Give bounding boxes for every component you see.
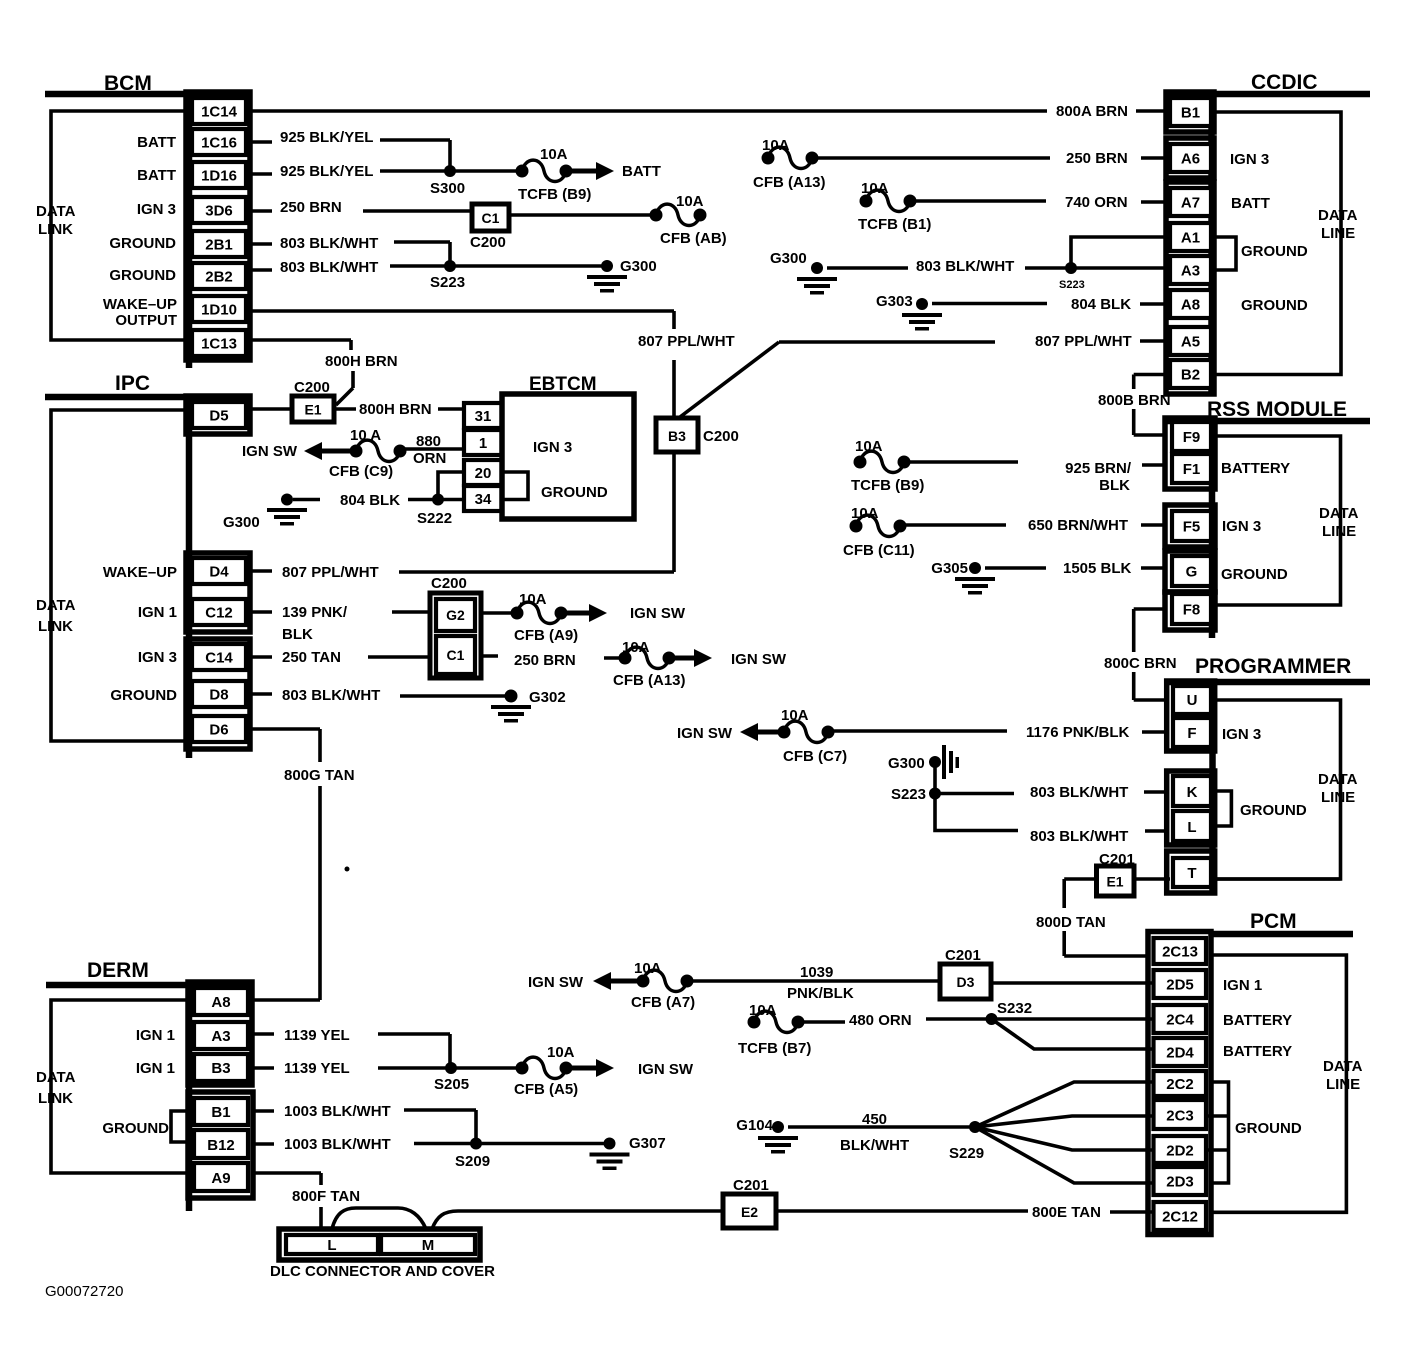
svg-text:31: 31	[475, 408, 492, 425]
BCM title line	[45, 91, 250, 98]
svg-text:IGN SW: IGN SW	[731, 651, 787, 668]
svg-text:GROUND: GROUND	[1235, 1120, 1302, 1137]
svg-text:GROUND: GROUND	[1241, 243, 1308, 260]
svg-text:800C BRN: 800C BRN	[1104, 655, 1177, 672]
label 250 BRN mid	[514, 652, 576, 669]
arrow IGN SW A7	[528, 972, 643, 991]
EBTCM ground bracket 20 34	[502, 472, 528, 500]
svg-text:925 BLK/YEL: 925 BLK/YEL	[280, 163, 373, 180]
pin A8	[194, 988, 248, 1015]
wire 1D16 925 BLK/YEL	[250, 171, 522, 174]
svg-text:2C3: 2C3	[1166, 1108, 1194, 1125]
wire A8 to 800G TAN	[252, 998, 320, 1002]
svg-text:807 PPL/WHT: 807 PPL/WHT	[638, 333, 735, 350]
PCM label BATTERY 2C4	[1223, 1012, 1292, 1029]
arrow IGN SW C9	[242, 442, 356, 460]
wire D5 to E1	[250, 407, 292, 411]
PCM label BATTERY 2D4	[1223, 1043, 1292, 1060]
svg-text:BATT: BATT	[137, 134, 176, 151]
label 139 PNK/ BLK	[282, 604, 348, 643]
svg-text:800H BRN: 800H BRN	[359, 401, 432, 418]
svg-text:IGN 3: IGN 3	[137, 201, 176, 218]
pin F5	[1172, 511, 1211, 541]
pin 1D10	[192, 296, 246, 322]
wire 1C16 925 BLK/YEL	[250, 140, 450, 171]
svg-text:F5: F5	[1183, 519, 1201, 536]
svg-text:925 BLK/YEL: 925 BLK/YEL	[280, 129, 373, 146]
svg-text:L: L	[1187, 819, 1196, 836]
svg-text:IGN SW: IGN SW	[242, 443, 298, 460]
fuse CFB (A5) 10A	[514, 1044, 578, 1098]
svg-text:BATTERY: BATTERY	[1223, 1043, 1292, 1060]
wire S232 to 2D4	[992, 1019, 1154, 1049]
svg-text:IGN SW: IGN SW	[677, 725, 733, 742]
IPC label GROUND	[110, 687, 177, 704]
svg-text:925 BRN/: 925 BRN/	[1065, 460, 1132, 477]
svg-text:2C13: 2C13	[1162, 944, 1198, 961]
label 803 BLK/WHT A3	[916, 258, 1014, 275]
svg-text:2B1: 2B1	[205, 237, 233, 254]
svg-text:B3: B3	[211, 1060, 230, 1077]
RSS label BATTERY	[1221, 460, 1290, 477]
svg-text:G305: G305	[931, 560, 968, 577]
label 803 BLK/WHT K	[1030, 784, 1128, 801]
pin A8	[1170, 290, 1211, 318]
label 800D TAN	[1036, 914, 1106, 931]
svg-text:CFB (A5): CFB (A5)	[514, 1081, 578, 1098]
svg-text:A9: A9	[211, 1170, 230, 1187]
svg-text:L: L	[327, 1237, 336, 1254]
fuse TCFB (B7) 10A	[738, 1002, 811, 1057]
label 800G TAN	[284, 767, 355, 784]
fuse CFB (A13) mid 10A	[613, 639, 686, 689]
svg-text:10A: 10A	[855, 438, 883, 455]
svg-text:CFB (A13): CFB (A13)	[753, 174, 826, 191]
BCM label BATT 1C16	[137, 134, 176, 151]
DERM title line	[46, 982, 250, 989]
svg-text:1C16: 1C16	[201, 135, 237, 152]
ground G104	[736, 1117, 798, 1154]
wire 1D10 wake-up output	[250, 311, 674, 418]
svg-text:803 BLK/WHT: 803 BLK/WHT	[1030, 828, 1128, 845]
pin 2D4	[1154, 1038, 1207, 1066]
svg-text:WAKE–UP: WAKE–UP	[103, 564, 177, 581]
EBTCM pin 1	[464, 430, 502, 455]
label 807 PPL/WHT D4	[282, 564, 379, 581]
svg-text:S222: S222	[417, 510, 452, 527]
svg-text:2D5: 2D5	[1166, 977, 1194, 994]
splice S223 right	[891, 762, 941, 803]
svg-text:G302: G302	[529, 689, 566, 706]
wire fuse A7 to D3 1039 PNK/BLK	[687, 979, 940, 983]
DERM label IGN 1 B3	[136, 1060, 175, 1077]
svg-text:G2: G2	[446, 607, 465, 623]
wire to BATT arrow	[566, 169, 598, 174]
IPC DATA LINK text	[36, 597, 76, 635]
svg-text:GROUND: GROUND	[109, 267, 176, 284]
svg-text:250 BRN: 250 BRN	[514, 652, 576, 669]
splice S223 ccdic	[1059, 262, 1085, 291]
CCDIC connector right bar	[1208, 92, 1215, 394]
wire fuse C11 to F5 650 BRN/WHT	[900, 523, 1165, 527]
pin 2C4	[1154, 1005, 1207, 1033]
ground G300 d sideways	[888, 745, 959, 779]
fuse TCFB (B9) 10A	[516, 146, 592, 203]
label 1505 BLK	[1063, 560, 1132, 577]
PCM title line	[1211, 931, 1353, 938]
svg-text:D3: D3	[957, 974, 975, 990]
PROGRAMMER cluster box T	[1167, 851, 1215, 893]
svg-text:1039: 1039	[800, 964, 833, 981]
svg-text:34: 34	[475, 491, 492, 508]
connector C200 pin E1	[292, 379, 334, 422]
fuse CFB (A7) 10A	[631, 960, 695, 1011]
svg-text:DLC CONNECTOR AND COVER: DLC CONNECTOR AND COVER	[270, 1263, 495, 1280]
svg-text:BATTERY: BATTERY	[1223, 1012, 1292, 1029]
EBTCM pin 31	[464, 403, 502, 428]
svg-text:BATT: BATT	[622, 163, 661, 180]
label 800B BRN	[1098, 392, 1171, 409]
wire 2B2 803 BLK/WHT	[250, 266, 607, 270]
svg-text:E2: E2	[741, 1204, 758, 1220]
svg-text:S223: S223	[891, 786, 926, 803]
module IPC title	[115, 372, 150, 395]
EBTCM pin 20	[464, 460, 502, 485]
svg-text:U: U	[1187, 692, 1198, 709]
ground G300 c	[223, 494, 307, 532]
wire D4 807 PPL/WHT	[250, 452, 674, 572]
pin G	[1172, 556, 1211, 586]
svg-text:DATA: DATA	[1323, 1058, 1363, 1075]
DERM connector outer box group2	[188, 1092, 253, 1198]
wire A3 1139 YEL	[252, 1034, 450, 1068]
svg-text:G300: G300	[888, 755, 925, 772]
RSS label GROUND	[1221, 566, 1288, 583]
module PCM title	[1250, 910, 1297, 933]
svg-text:1C14: 1C14	[201, 104, 238, 121]
svg-text:A6: A6	[1181, 151, 1200, 168]
wire fuse B1 to A7 740 ORN	[910, 201, 1170, 202]
pin 1D16	[192, 162, 246, 188]
svg-text:800G TAN: 800G TAN	[284, 767, 355, 784]
svg-text:1: 1	[479, 435, 487, 452]
svg-text:DATA: DATA	[1318, 771, 1358, 788]
svg-text:CFB (A9): CFB (A9)	[514, 627, 578, 644]
svg-text:800H BRN: 800H BRN	[325, 353, 398, 370]
svg-text:DERM: DERM	[87, 959, 149, 982]
IPC cluster box C14 D8 D6	[186, 639, 250, 749]
svg-text:PCM: PCM	[1250, 910, 1297, 933]
label 800F TAN	[292, 1188, 360, 1205]
PCM DATA LINE bracket	[1209, 955, 1346, 1212]
svg-text:B12: B12	[207, 1137, 235, 1154]
wire S229 to 2C2	[975, 1082, 1154, 1127]
label 803 BLK/WHT 2B1	[280, 235, 378, 252]
wire hump M to E2	[432, 1211, 723, 1229]
pin L	[1173, 811, 1211, 841]
label 800H BRN upper	[325, 353, 398, 370]
IPC label IGN 3	[138, 649, 177, 666]
CCDIC ground bracket A1 A3	[1214, 237, 1236, 270]
wire E1 to T	[1064, 877, 1170, 881]
svg-text:650 BRN/WHT: 650 BRN/WHT	[1028, 517, 1128, 534]
svg-text:2B2: 2B2	[205, 269, 233, 286]
connector C200 G2 C1 box	[430, 575, 481, 678]
svg-text:10A: 10A	[851, 505, 879, 522]
DERM connector outer box group1	[188, 982, 252, 1085]
label 650 BRN/WHT	[1028, 517, 1128, 534]
pin U	[1173, 686, 1211, 714]
svg-text:G307: G307	[629, 1135, 666, 1152]
svg-text:800A BRN: 800A BRN	[1056, 103, 1128, 120]
svg-text:1D16: 1D16	[201, 168, 237, 185]
wire C12 139 PNK/BLK	[250, 610, 430, 614]
label 803 BLK/WHT L	[1030, 828, 1128, 845]
pin B1	[1170, 98, 1211, 126]
wire D3 to 2D5	[991, 981, 1154, 985]
svg-text:DATA: DATA	[1319, 505, 1359, 522]
svg-text:800E TAN: 800E TAN	[1032, 1204, 1101, 1221]
svg-text:10A: 10A	[861, 180, 889, 197]
pin A9	[194, 1163, 248, 1191]
svg-text:1139 YEL: 1139 YEL	[284, 1060, 350, 1077]
svg-text:S229: S229	[949, 1145, 984, 1162]
figure number G00072720	[45, 1283, 123, 1300]
BCM label IGN 3	[137, 201, 176, 218]
svg-text:10A: 10A	[519, 591, 547, 608]
wire D8 803 BLK/WHT	[250, 694, 511, 696]
wire G300 to A3 803 BLK/WHT	[827, 266, 1170, 270]
IPC label WAKE-UP	[103, 564, 177, 581]
svg-text:CFB (A7): CFB (A7)	[631, 994, 695, 1011]
pin 1C14	[192, 98, 246, 124]
svg-text:10A: 10A	[634, 960, 662, 977]
label 804 BLK	[340, 492, 400, 509]
svg-text:804 BLK: 804 BLK	[340, 492, 400, 509]
svg-text:2D4: 2D4	[1166, 1045, 1194, 1062]
PCM ground bracket	[1206, 1082, 1229, 1183]
arrow BATT	[596, 162, 661, 180]
svg-text:LINK: LINK	[38, 1090, 73, 1107]
BCM connector left bar	[186, 92, 193, 368]
label 480 ORN	[849, 1012, 912, 1029]
svg-text:B1: B1	[211, 1104, 230, 1121]
svg-text:IGN 1: IGN 1	[136, 1060, 175, 1077]
svg-text:DATA: DATA	[36, 597, 76, 614]
label 1139 YEL A3	[284, 1027, 350, 1044]
fuse TCFB (B9) rss 10A	[851, 438, 924, 494]
svg-text:E1: E1	[304, 402, 321, 418]
wire C14 250 TAN	[250, 655, 430, 659]
BCM DATA LINK text	[36, 203, 76, 238]
wire T to data line	[1215, 877, 1341, 881]
svg-text:G: G	[1186, 564, 1198, 581]
splice S232	[986, 1000, 1033, 1025]
pin F9	[1172, 422, 1211, 451]
BCM connector outer box	[186, 92, 250, 360]
svg-text:1003 BLK/WHT: 1003 BLK/WHT	[284, 1136, 391, 1153]
svg-text:IGN 3: IGN 3	[1222, 518, 1261, 535]
svg-text:LINE: LINE	[1321, 789, 1355, 806]
svg-text:1C13: 1C13	[201, 336, 237, 353]
wire C1 250 BRN	[481, 656, 625, 658]
svg-text:OUTPUT: OUTPUT	[115, 312, 177, 329]
IPC cluster box D5	[186, 396, 250, 434]
wire S223 to L 803 BLK/WHT	[935, 794, 1167, 832]
pin 2C3	[1154, 1100, 1207, 1129]
connector C201 pin E1	[1097, 851, 1135, 896]
wire F8 800C BRN down to U	[1134, 609, 1167, 700]
pin 2C12	[1154, 1202, 1207, 1230]
pin D4	[192, 558, 246, 584]
label 925 BLK/YEL 1C16	[280, 129, 373, 146]
wire fuse B9 to F1 925 BRN/BLK	[904, 462, 1166, 465]
PROGRAMMER DATA LINE bracket	[1215, 700, 1341, 879]
wire 1C14 800A BRN to CCDIC B1	[250, 109, 1047, 113]
label 1039 PNK/BLK	[787, 964, 854, 1002]
pin A1	[1170, 223, 1211, 251]
label 450 BLK/WHT	[840, 1111, 909, 1154]
svg-text:S232: S232	[997, 1000, 1032, 1017]
splice S229	[949, 1121, 984, 1162]
svg-text:WAKE–UP: WAKE–UP	[103, 296, 177, 313]
svg-text:EBTCM: EBTCM	[529, 374, 597, 395]
pin B1	[194, 1098, 248, 1125]
svg-text:K: K	[1187, 784, 1198, 801]
label 1003 BLK/WHT B1	[284, 1103, 391, 1120]
PCM label IGN 1	[1223, 977, 1262, 994]
svg-text:10 A: 10 A	[350, 427, 381, 444]
wire E2 to 2C12 800E TAN	[776, 1211, 1154, 1212]
svg-text:BATTERY: BATTERY	[1221, 460, 1290, 477]
RSS connector right bar	[1209, 419, 1216, 638]
svg-text:C200: C200	[431, 575, 467, 592]
pin 1C16	[192, 129, 246, 155]
splice S205	[434, 1062, 469, 1093]
pin B2	[1170, 360, 1211, 388]
svg-text:GROUND: GROUND	[110, 687, 177, 704]
svg-text:D5: D5	[209, 408, 228, 425]
IPC cluster box D4 C12	[186, 553, 250, 632]
pin A5	[1170, 327, 1211, 355]
svg-text:10A: 10A	[749, 1002, 777, 1019]
svg-text:IGN 3: IGN 3	[533, 439, 572, 456]
svg-text:1139 YEL: 1139 YEL	[284, 1027, 350, 1044]
svg-text:M: M	[422, 1237, 435, 1254]
svg-text:CCDIC: CCDIC	[1251, 71, 1318, 94]
svg-text:LINK: LINK	[38, 618, 73, 635]
svg-text:880: 880	[416, 433, 441, 450]
PROGRAMMER connector right bar	[1209, 680, 1216, 895]
CCDIC label IGN 3	[1230, 151, 1269, 168]
wire 800D TAN down to 2C13	[1064, 879, 1150, 956]
RSS label IGN 3	[1222, 518, 1261, 535]
BCM label BATT 1D16	[137, 167, 176, 184]
svg-text:800F TAN: 800F TAN	[292, 1188, 360, 1205]
svg-text:250 BRN: 250 BRN	[280, 199, 342, 216]
wire fuse C7 to F 1176 PNK/BLK	[828, 731, 1167, 732]
svg-text:A3: A3	[211, 1028, 230, 1045]
label 250 BRN A6	[1066, 150, 1128, 167]
RSS DATA LINE bracket	[1215, 436, 1341, 605]
label 804 BLK A8	[1071, 296, 1131, 313]
module BCM title	[104, 72, 152, 95]
svg-text:GROUND: GROUND	[102, 1120, 169, 1137]
svg-text:BLK/WHT: BLK/WHT	[840, 1137, 909, 1154]
PROGRAMMER DATA LINE text	[1318, 771, 1358, 806]
svg-text:IGN SW: IGN SW	[630, 605, 686, 622]
wire S229 to 2C3	[975, 1116, 1154, 1127]
label 1176 PNK/BLK	[1026, 724, 1130, 741]
svg-text:DATA: DATA	[1318, 207, 1358, 224]
wire 804 BLK to pin 34	[293, 498, 464, 502]
IPC title line	[45, 394, 250, 401]
svg-text:A7: A7	[1181, 195, 1200, 212]
wire A9 800F TAN to DLC L	[253, 1173, 321, 1230]
svg-text:F1: F1	[1183, 461, 1201, 478]
BCM label GROUND 2B2	[109, 267, 176, 284]
fuse CFB (C7) 10A	[778, 707, 848, 765]
wire S223 to K 803 BLK/WHT	[935, 792, 1167, 794]
pin T	[1173, 858, 1211, 887]
svg-text:D4: D4	[209, 564, 229, 581]
pin 2B1	[192, 231, 246, 257]
DERM DATA LINK bracket	[51, 1000, 188, 1173]
wire G104 to S229 450 BLK/WHT	[788, 1125, 975, 1129]
ground G307	[590, 1135, 666, 1170]
arrow IGN SW C7	[677, 723, 784, 742]
label 807 PPL/WHT mid	[638, 333, 735, 350]
pin A3	[1170, 256, 1211, 284]
DERM left bar	[186, 982, 193, 1211]
ground G300 b	[770, 250, 837, 295]
svg-text:250 BRN: 250 BRN	[1066, 150, 1128, 167]
fuse CFB (C9) 10A	[329, 427, 407, 480]
svg-text:S209: S209	[455, 1153, 490, 1170]
wire B12 1003 BLK/WHT	[252, 1142, 610, 1146]
module RSS MODULE title	[1207, 398, 1347, 421]
wire B2 800B BRN down to F9	[1134, 375, 1170, 436]
BCM label GROUND 2B1	[109, 235, 176, 252]
DERM label IGN 1 A3	[136, 1027, 175, 1044]
EBTCM pin 34	[464, 486, 502, 511]
svg-text:TCFB (B9): TCFB (B9)	[518, 186, 591, 203]
CCDIC label BATT	[1231, 195, 1270, 212]
pin B3	[194, 1054, 248, 1081]
RSS cluster box F5	[1165, 505, 1215, 547]
PROGRAMMER ground bracket K L	[1215, 791, 1231, 826]
arrow IGN SW A13	[669, 649, 787, 668]
label 800H BRN lower	[359, 401, 432, 418]
svg-text:G300: G300	[223, 514, 260, 531]
fuse CFB (A13) top 10A	[753, 137, 826, 191]
svg-text:DATA: DATA	[36, 1069, 76, 1086]
CCDIC label GROUND A8	[1241, 297, 1308, 314]
splice S223 left	[430, 260, 465, 291]
CCDIC label GROUND A1 A3	[1241, 243, 1308, 260]
pin 1C13	[192, 330, 246, 356]
pin D6	[192, 716, 246, 742]
DERM DATA LINK text	[36, 1069, 76, 1107]
label 880 ORN	[413, 433, 446, 467]
svg-text:F9: F9	[1183, 429, 1201, 446]
arrow IGN SW A9	[561, 604, 686, 622]
svg-text:BATT: BATT	[1231, 195, 1270, 212]
svg-text:804 BLK: 804 BLK	[1071, 296, 1131, 313]
svg-text:B3: B3	[668, 428, 686, 444]
pin 2D2	[1154, 1136, 1207, 1163]
connector C200 pin B3	[656, 418, 739, 452]
